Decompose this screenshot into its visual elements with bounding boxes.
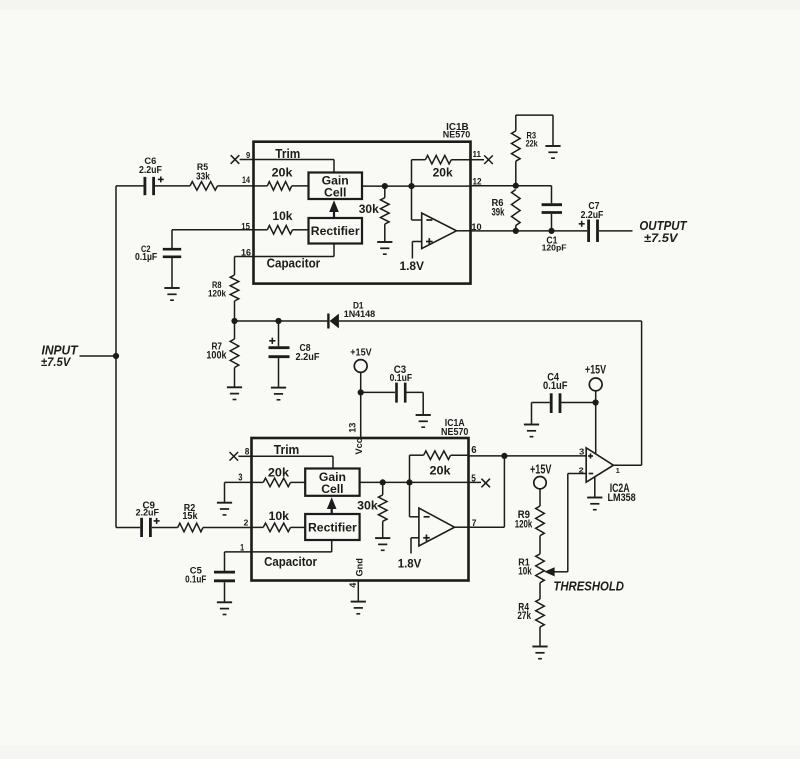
wire R5 to pin 14 [218, 185, 254, 187]
wire node row [235, 320, 328, 322]
svg-text:11: 11 [473, 150, 482, 159]
wire C4 to ground [531, 403, 533, 424]
op-amp (IC1A output amp) [419, 508, 455, 546]
junction feedback tee (IC1A) [406, 479, 412, 485]
resistor 30k (IC1A) [382, 482, 384, 495]
svg-text:39k: 39k [492, 207, 505, 219]
ground R3 [545, 145, 560, 147]
svg-text:Vcc: Vcc [354, 438, 364, 454]
svg-text:6: 6 [471, 445, 477, 456]
arrow rectifier to gain cell (IC1A) [331, 506, 333, 514]
resistor R2 15k [178, 523, 203, 532]
op-amp IC2A LM358 [586, 448, 613, 482]
block Gain Cell (IC1A) [305, 469, 359, 496]
wire minus input (IC1B) [411, 186, 413, 220]
svg-text:120pF: 120pF [542, 243, 567, 253]
wire Trim internal [254, 159, 334, 161]
op-amp IC1A NE570 block outline [252, 438, 469, 581]
capacitor C4 [532, 402, 550, 404]
svg-text:8: 8 [245, 447, 250, 457]
op-amp (IC1B output amp) [422, 213, 457, 249]
resistor 20k feedback (IC1A) [409, 455, 411, 482]
svg-text:20k: 20k [433, 166, 453, 180]
resistor R7 100k [234, 321, 236, 339]
svg-text:1.8V: 1.8V [400, 259, 425, 273]
diode D1 1N4148 [327, 314, 329, 329]
wire gain cell output to pin 5 [360, 481, 469, 483]
wire 1.8V plus input (IC1A) [411, 537, 419, 539]
svg-text:1: 1 [616, 467, 620, 475]
wire pin 6 to IC2A plus input [469, 455, 587, 457]
svg-text:20k: 20k [272, 166, 293, 180]
resistor 10k (IC1B) [254, 229, 267, 231]
svg-text:2.2uF: 2.2uF [139, 165, 162, 176]
block Rectifier (IC1B) [309, 218, 363, 244]
capacitor C2 [171, 230, 173, 248]
wire pin 3 to ground [225, 481, 252, 483]
wire IC2A output [613, 464, 641, 466]
resistor 20k (IC1A input) [252, 481, 263, 483]
wire +15V to op-amp [595, 391, 597, 454]
ground IC2A [587, 497, 602, 499]
wire feedback vertical to IC2A output [641, 321, 643, 465]
wire Capacitor pin 16 (IC1B) [333, 244, 335, 257]
wire IC2A minus input [568, 473, 586, 475]
ground C5 [217, 601, 232, 603]
svg-text:20k: 20k [268, 465, 289, 479]
wire 1.8V plus input (IC1B) [412, 241, 421, 243]
wire pin 7 to junction [469, 526, 505, 528]
svg-text:0.1uF: 0.1uF [390, 373, 413, 384]
ground 30k (IC1B) [377, 241, 392, 243]
junction input bus [113, 353, 119, 359]
ground C2 [164, 287, 179, 289]
ground C4 [524, 424, 539, 426]
power +15V terminal (Vcc) [354, 360, 367, 373]
capacitor C3 [361, 391, 395, 393]
svg-text:Capacitor: Capacitor [264, 555, 317, 569]
capacitor C7 [587, 220, 590, 243]
junction C4/+15V node [593, 399, 599, 405]
svg-text:10k: 10k [518, 566, 532, 578]
junction C1 bottom [548, 228, 554, 234]
wire INPUT to bus [80, 355, 117, 357]
svg-text:1: 1 [240, 543, 244, 553]
junction pin6/pin7 node [501, 453, 507, 459]
svg-text:Rectifier: Rectifier [311, 224, 360, 238]
wire pin 15 [172, 229, 254, 231]
svg-text:2.2uF: 2.2uF [296, 352, 320, 363]
ground C3 [416, 414, 431, 416]
ground R4 [532, 646, 547, 648]
svg-text:4: 4 [348, 582, 358, 588]
svg-text:33k: 33k [196, 171, 210, 182]
svg-text:2.2uF: 2.2uF [136, 508, 160, 518]
capacitor C1 120pF [551, 186, 553, 204]
svg-text:Gnd: Gnd [355, 558, 365, 576]
svg-text:Trim: Trim [274, 443, 300, 457]
power +15V terminal (IC2A) [589, 378, 602, 391]
wire op-amp output pin 7 [455, 526, 469, 528]
svg-text:10k: 10k [272, 209, 292, 223]
wire pin 10 output row [471, 230, 588, 232]
wire input bus vertical [115, 186, 117, 528]
svg-text:10k: 10k [269, 509, 290, 523]
wire R2 to pin 2 [203, 527, 252, 529]
svg-text:+15V: +15V [530, 463, 552, 477]
ground 30k (IC1A) [375, 537, 390, 539]
resistor R8 120k [230, 275, 239, 301]
svg-text:THRESHOLD: THRESHOLD [553, 579, 624, 594]
block Rectifier (IC1A) [305, 514, 359, 540]
wire R1 to R4 [539, 583, 541, 599]
ground R7 [227, 386, 242, 388]
svg-text:Capacitor: Capacitor [267, 256, 321, 270]
op-amp IC1B NE570 block outline [254, 142, 471, 284]
pin 9 trim X mark [231, 155, 240, 164]
svg-text:Trim: Trim [275, 147, 300, 161]
svg-text:9: 9 [246, 151, 251, 160]
resistor R4 27k [536, 599, 545, 627]
svg-text:14: 14 [242, 175, 250, 185]
svg-text:15k: 15k [182, 511, 198, 522]
wire pin 9 trim [240, 159, 254, 161]
wire minus input (IC1A) [409, 482, 411, 516]
junction R8/R7 node [231, 318, 237, 324]
svg-text:2.2uF: 2.2uF [581, 210, 604, 221]
junction 30k top (IC1B) [382, 183, 388, 189]
svg-text:1N4148: 1N4148 [344, 309, 376, 319]
junction C3 node [358, 389, 364, 395]
arrow rectifier to gain cell (IC1B) [333, 209, 335, 218]
svg-text:30k: 30k [359, 202, 379, 216]
capacitor C9 [116, 527, 140, 529]
svg-text:22k: 22k [526, 139, 539, 149]
wire C9 to R2 [152, 527, 178, 529]
power +15V terminal (R9) [534, 477, 546, 489]
wire C6 to R5 [155, 185, 190, 187]
svg-text:±7.5V: ±7.5V [41, 355, 72, 369]
svg-text:0.1µF: 0.1µF [135, 252, 157, 263]
capacitor C8 [278, 321, 280, 346]
resistor 20k (IC1B input) [254, 185, 267, 187]
resistor 20k feedback (IC1B) [411, 160, 413, 186]
wire Gnd pin 4 [357, 581, 359, 601]
resistor R5 33k [190, 182, 218, 191]
ground C8 [271, 387, 286, 389]
ground pin 4 [351, 601, 366, 603]
wire C7 to OUTPUT [599, 230, 633, 232]
wire pin 8 trim [238, 455, 252, 457]
resistor 10k (IC1A) [252, 526, 263, 528]
svg-text:LM358: LM358 [608, 492, 636, 504]
junction C8 node [275, 318, 281, 324]
junction R6 bottom [513, 228, 519, 234]
wire Capacitor pin 1 (IC1A) [331, 540, 333, 552]
svg-text:±7.5V: ±7.5V [644, 231, 679, 245]
svg-text:+15V: +15V [585, 365, 606, 377]
junction feedback tee (IC1B) [408, 183, 414, 189]
svg-text:120k: 120k [208, 289, 227, 300]
wire R9 to R1 [539, 536, 541, 554]
svg-text:16: 16 [241, 247, 251, 257]
svg-text:27k: 27k [517, 610, 531, 622]
junction R3/R6 node [513, 183, 519, 189]
svg-text:2: 2 [244, 517, 249, 527]
ground pin 3 [217, 502, 232, 504]
wire IC2A ground stub [594, 477, 596, 497]
wire D1 to feedback vertical [339, 320, 642, 322]
pin 8 trim X mark [230, 452, 239, 461]
wire op-amp output pin 10 [457, 230, 471, 232]
potentiometer R1 10k [536, 554, 545, 583]
svg-text:0.1uF: 0.1uF [543, 380, 568, 392]
resistor 30k (IC1B) [384, 186, 386, 198]
svg-text:NE570: NE570 [443, 130, 470, 140]
capacitor C5 [214, 571, 235, 574]
wire pin 12 to C1 [471, 185, 552, 187]
resistor R9 120k [536, 506, 545, 536]
svg-text:NE570: NE570 [441, 427, 468, 438]
svg-text:Cell: Cell [324, 185, 346, 199]
wire +15V to R9 [539, 489, 541, 506]
svg-text:Rectifier: Rectifier [308, 520, 357, 534]
wire gain cell output to pin 12 [362, 185, 471, 187]
wire +15V to Vcc pin 13 [360, 372, 362, 438]
svg-text:120k: 120k [515, 518, 533, 530]
wire Trim internal (IC1A) [252, 455, 333, 457]
capacitor C6 [116, 185, 144, 187]
svg-text:1.8V: 1.8V [398, 557, 422, 571]
junction 30k top (IC1A) [380, 479, 386, 485]
resistor R3 22k [515, 115, 517, 131]
svg-text:100k: 100k [206, 350, 227, 362]
block Gain Cell (IC1B) [309, 173, 363, 200]
resistor R6 39k [512, 190, 521, 226]
svg-text:+15V: +15V [350, 348, 372, 359]
svg-text:20k: 20k [430, 463, 451, 477]
svg-text:13: 13 [347, 423, 357, 433]
svg-text:Cell: Cell [321, 482, 343, 496]
svg-text:0.1uF: 0.1uF [185, 575, 206, 586]
svg-text:30k: 30k [357, 499, 378, 513]
svg-text:3: 3 [579, 447, 585, 457]
wire R1 wiper [554, 571, 568, 573]
